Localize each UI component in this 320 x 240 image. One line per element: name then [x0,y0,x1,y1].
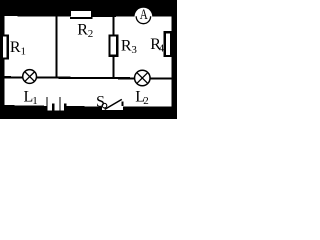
white circuit field [0,0,177,119]
wire right vertical branch (merged with right margin) [171,0,177,119]
resistor R2 body fill [71,11,91,17]
wire bottom rail (merged into bottom black band) [0,105,177,119]
battery B1 short plate 1 [52,103,55,111]
svg-text:R: R [121,37,132,54]
switch S lever [105,99,122,109]
battery B1 short plate 2 [64,103,67,111]
wire R3 bottom lead [113,57,115,79]
wire top rail (merged into top black band) [0,0,177,17]
resistor R1 [0,35,9,60]
wire left vertical branch (merged with left margin) [0,0,5,119]
resistor R3 [109,34,119,57]
svg-text:4: 4 [159,42,165,54]
svg-text:R: R [77,21,88,38]
ammeter A1 [136,9,150,23]
svg-text:S: S [96,94,105,111]
svg-text:1: 1 [32,95,38,107]
lamp L2 [135,70,151,86]
svg-text:R: R [10,39,21,56]
battery B1 long plate 2 [59,97,60,111]
wire R3 top lead [113,17,115,35]
svg-text:1: 1 [21,45,27,57]
lamp L1 [23,70,37,84]
svg-text:2: 2 [88,28,94,40]
svg-text:A: A [140,7,149,23]
node switch gap pocket [102,106,123,110]
wire middle column branch [55,17,57,79]
ammeter A1 halo [135,8,153,26]
svg-text:2: 2 [143,95,149,107]
resistor R4 [164,31,172,57]
resistor R2 bottom border [70,17,92,19]
wire middle rail [5,76,172,80]
node battery gap pocket [46,106,66,111]
switch S contact [121,102,123,107]
battery B1 long plate 1 [46,97,47,111]
switch S pivot [102,103,107,108]
svg-text:3: 3 [131,44,137,56]
